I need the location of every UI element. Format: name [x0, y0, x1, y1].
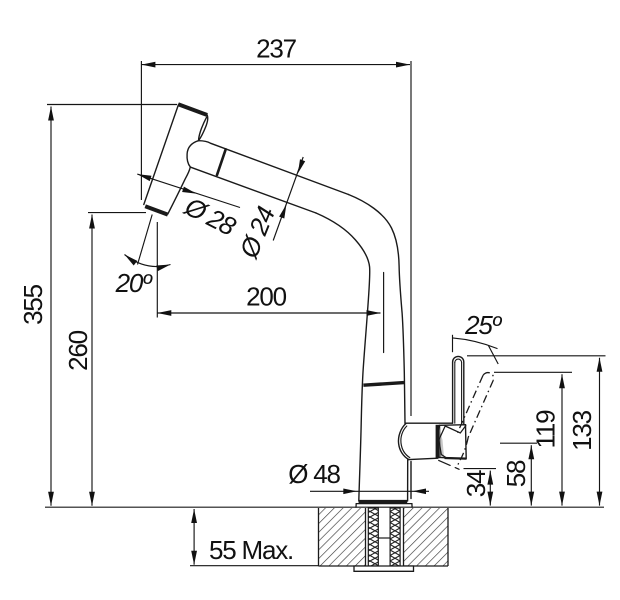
dim 55max bottom reference line [190, 565, 319, 567]
svg-text:355: 355 [18, 284, 48, 325]
tilted lever cap arc [483, 373, 494, 381]
svg-text:58: 58 [501, 460, 531, 487]
spray head clip crescent outer [199, 115, 208, 141]
dim 355 extension line top [47, 104, 177, 106]
dim 34 extension line [464, 468, 497, 470]
dia24 dim line [273, 157, 303, 241]
spray head right lower edge [168, 167, 191, 214]
valve outer profile line [410, 462, 412, 499]
dim 58 extension line [500, 442, 537, 444]
dia48 arrow left [343, 489, 357, 495]
inner hose seam line [383, 273, 385, 353]
dim 55max line [193, 509, 195, 565]
spray head bottom cap [145, 206, 168, 214]
lever outer outline [453, 356, 464, 424]
dim 200 extension line left [156, 222, 158, 318]
svg-text:55 Max.: 55 Max. [209, 535, 293, 565]
angle 25 arc [453, 338, 498, 349]
svg-text:Ø 48: Ø 48 [288, 459, 340, 489]
dim 119 extension line [494, 371, 572, 373]
dia24 arrow bottom [279, 204, 286, 218]
spray head shoulder curve [187, 141, 198, 167]
dia28 dim line [137, 174, 240, 207]
threaded shank right strip [390, 508, 400, 566]
countertop slab hatched right part [404, 508, 449, 566]
spray hose separator line [217, 149, 226, 175]
valve joint dark bar [436, 425, 440, 458]
base flange [356, 504, 412, 508]
angle 20 arc [125, 255, 171, 267]
handle socket crease top V [445, 426, 466, 433]
handle base bottom thick edge [445, 457, 467, 460]
tilted lever right edge [468, 380, 493, 437]
dim 237 extension line left [140, 61, 142, 200]
angle 20 slant line [138, 215, 153, 265]
svg-text:34: 34 [461, 470, 491, 497]
dim 200 line [157, 312, 380, 314]
counter top surface line [45, 506, 604, 508]
dim 133 line [599, 358, 601, 506]
spout bend inner edge and column left edge [316, 213, 370, 501]
svg-text:260: 260 [63, 330, 93, 371]
valve bottom line [409, 458, 438, 459]
handle socket crease left [439, 426, 447, 458]
tilted lever alternate position (dash-dot) [457, 373, 494, 469]
dim 260 line [91, 215, 93, 506]
slab outline [319, 508, 449, 566]
lever inner left line [454, 363, 456, 424]
dia28 arrow left [137, 174, 151, 181]
spout tube upper edge [199, 141, 349, 195]
dia48 arrow right [413, 489, 427, 495]
column right edge lower (valve to base) [407, 460, 409, 501]
shank bore tick [378, 537, 390, 539]
tilted lever left edge [457, 376, 483, 434]
dim 58 line [530, 445, 532, 505]
svg-text:119: 119 [531, 410, 561, 449]
threaded shank left strip [368, 508, 378, 566]
angle 25 tick vertical [452, 335, 454, 352]
countertop slab hatched left part [319, 508, 449, 571]
svg-text:25º: 25º [464, 310, 503, 340]
dim 355 line [50, 107, 52, 506]
dim 34 line [489, 471, 491, 506]
svg-text:200: 200 [246, 282, 287, 312]
handle socket lower tilt line [439, 460, 459, 469]
spout tube lower edge [191, 167, 316, 213]
svg-text:237: 237 [256, 34, 297, 64]
spray head clip crescent inner [199, 117, 207, 140]
dim 133 extension line [467, 355, 606, 357]
dim 237 line [141, 64, 410, 66]
mounting nut [354, 566, 414, 571]
column bottom thick edge [359, 500, 408, 503]
lever inner cap arc [455, 359, 462, 362]
svg-text:133: 133 [567, 410, 597, 451]
svg-text:20º: 20º [115, 268, 154, 298]
dim 260 extension line top [88, 212, 146, 214]
spray head top cap [178, 104, 207, 115]
dim 119 line [561, 374, 563, 505]
dim 237 extension line right [410, 61, 412, 416]
lever inner right line [461, 363, 463, 425]
dia28 arrow right [182, 187, 196, 194]
handle base polygon [440, 425, 467, 459]
angle 25 tick slant [488, 346, 498, 365]
valve left bulge inner rim [401, 426, 410, 458]
handle base shading wedge [439, 427, 444, 457]
tilted lever bottom tip [457, 437, 468, 469]
valve top line [405, 422, 452, 424]
column seam dark band [363, 383, 404, 386]
dia48 dim line [310, 490, 429, 492]
valve left bulge [398, 423, 408, 459]
dia24 arrow top [298, 159, 305, 173]
spout bend outer edge and column right edge [349, 195, 406, 424]
spray head left edge [144, 105, 179, 205]
